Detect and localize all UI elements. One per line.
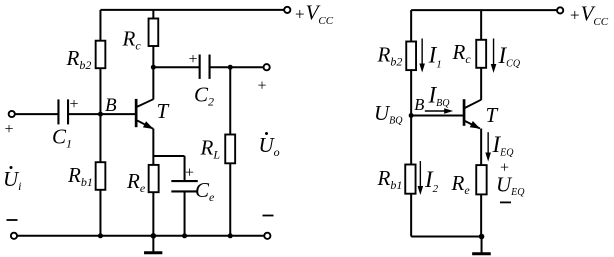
wire top rail left [100,9,284,11]
node B right [409,113,414,118]
wire Ce bottom [184,192,186,236]
wire RL bottom [229,163,231,236]
resistor Rb2 right [406,42,416,71]
label minus UEQ [500,201,511,203]
wire emitter to Re right [480,129,482,166]
terminal output bottom [264,233,270,239]
wire Rb2 bottom to node B [99,68,101,114]
svg-text:B: B [105,95,117,116]
terminal bottom left [11,233,17,239]
wire RL top [229,67,231,134]
transistor T right [464,99,481,129]
wire Rb1 bottom [99,190,101,236]
wire Rc top [152,10,154,19]
node collector [151,65,156,70]
capacitor C1 [58,99,68,124]
ground left [144,251,162,254]
svg-text:+: + [5,121,14,138]
wire emitter jog horizontal to Ce [153,155,184,157]
resistor Rb1 right [405,165,415,194]
node rail RL [228,233,233,238]
svg-text:+: + [70,96,79,113]
current arrow IBQ [425,108,453,114]
wire Rc top right [480,10,482,40]
wire bottom rail left [17,235,264,237]
resistor Re right [476,165,486,194]
svg-text:T: T [157,99,170,123]
wire input to C1 [15,113,58,115]
terminal input [9,111,15,117]
resistor RL [225,135,235,164]
label minus output [263,215,274,217]
svg-text:T: T [486,103,499,127]
wire Rb1 bottom right [410,194,412,237]
wire C1 to base [69,113,136,115]
terminal output top [264,64,270,70]
svg-text:+: + [258,78,267,95]
current arrow I2 [418,161,424,195]
capacitor Ce [171,181,197,191]
wire emitter vertical to Re [152,129,154,165]
resistor Rc right [476,40,486,68]
node rail Ce [182,233,187,238]
wire collector node to C2 [153,66,199,68]
wire Rb2 top [99,10,101,41]
capacitor C2 [200,55,210,79]
current arrow IEQ [485,132,491,161]
node rail Rb1 [98,233,103,238]
terminal +Vcc left [284,7,290,13]
svg-text:+: + [185,165,194,182]
wire Rc bottom to collector node [152,46,154,67]
wire C2 to output node [210,66,263,68]
wire Rb2 top right [410,10,412,41]
wire jog down to Ce [184,156,186,181]
wire Re bottom [152,192,154,236]
node B [98,112,103,117]
wire collector vertical [152,67,154,99]
resistor Rb1 [96,162,106,190]
wire ground stub left [152,236,154,252]
dot over Uo [265,132,268,135]
svg-text:+: + [189,51,198,68]
transistor T left [136,99,153,129]
label minus input [7,219,18,221]
wire top rail right [411,9,557,11]
resistor Rc [149,19,159,47]
wire Rb1 top [99,114,101,162]
dot over Ui [10,166,13,169]
wire Re bottom right [480,194,482,236]
wire ground stub right [481,237,483,254]
wire base right [411,115,463,117]
node ground right [479,234,485,240]
svg-text:B: B [414,95,424,114]
ground right [472,252,491,255]
resistor Re [149,165,159,192]
current arrow I1 [419,39,425,73]
wire Rc to collector right [480,68,482,100]
wire Rb2 to node B right [410,70,412,115]
resistor Rb2 [96,41,106,68]
terminal +Vcc right [557,7,563,13]
current arrow ICQ [491,39,497,74]
node rail ground left [151,233,157,239]
wire Rb1 top right [410,116,412,165]
wire bottom rail right [411,236,481,238]
node output [228,65,233,70]
